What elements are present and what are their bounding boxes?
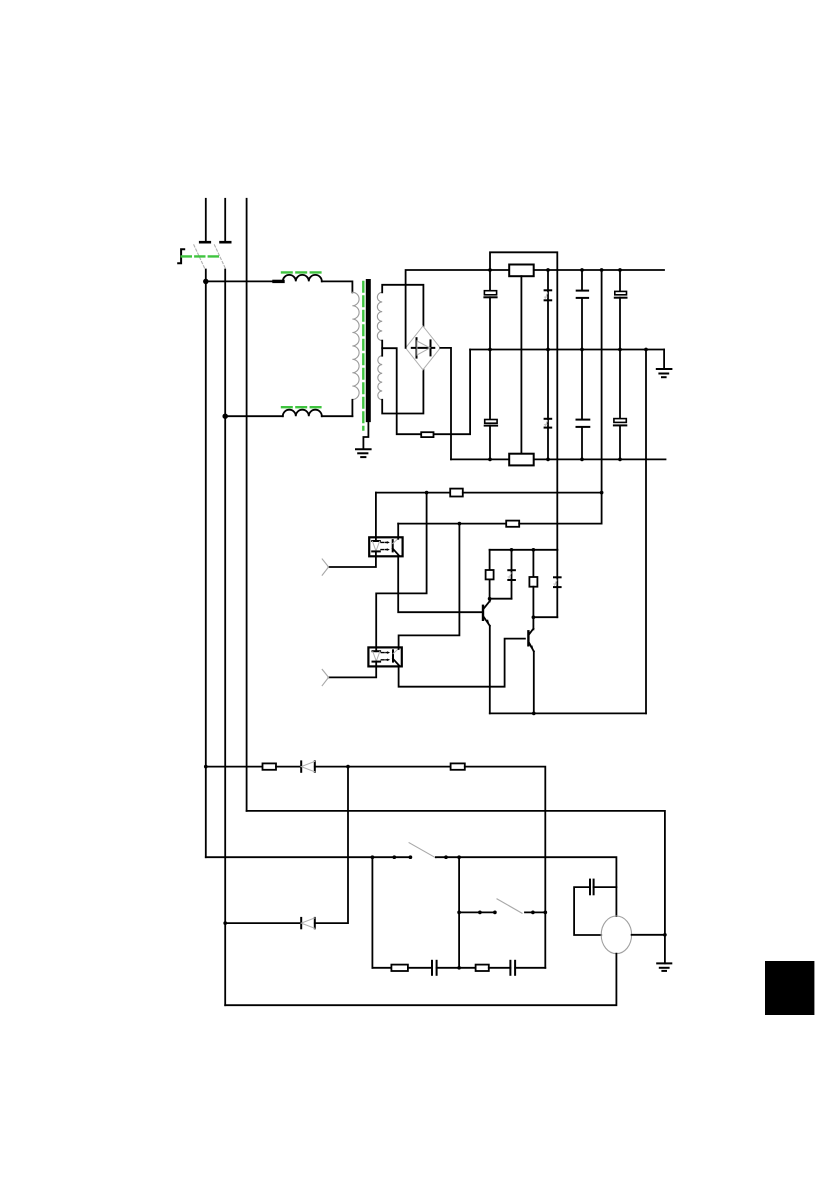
- transformer T1 primary winding: [352, 292, 359, 399]
- wire R8 to D1: [276, 766, 301, 768]
- node junction AC2 diode line: [223, 921, 227, 925]
- node junction motor right: [663, 933, 667, 937]
- wire C12 to corner: [515, 967, 545, 969]
- transistor Q1: [483, 599, 490, 714]
- wire opto1 right lead top: [397, 524, 399, 538]
- node junction line3 rail branch: [371, 855, 375, 859]
- wire middle bus: [470, 349, 664, 351]
- wire S3 right part: [525, 911, 545, 913]
- resistor R4 feed1: [450, 489, 463, 497]
- node feed1 junctions: [425, 491, 604, 495]
- wire D2 to riser: [315, 767, 348, 924]
- node bottom bus junctions: [488, 458, 622, 462]
- wire opto2 left lead from feed1: [376, 493, 426, 648]
- wire R9 to corner: [465, 767, 546, 968]
- transformer T1 shield green dashed line: [362, 282, 364, 430]
- motor M1: [601, 916, 631, 954]
- wire opto2 anode input: [329, 666, 377, 677]
- wire bottom return line: [225, 954, 616, 1006]
- node junction at AC1/phase wire: [204, 280, 208, 284]
- wire middle bus ground stem: [663, 350, 665, 369]
- wire top bus feed to opto line: [601, 270, 603, 493]
- bridge rectifier BR1 diode symbol: [412, 338, 435, 357]
- diode D2: [301, 918, 315, 928]
- capacitor C7 electrolytic row1: [615, 270, 627, 350]
- ground symbol transformer core: [356, 449, 371, 457]
- optocoupler U2 box: [368, 647, 401, 666]
- capacitor C10 Q2 collector: [533, 550, 560, 617]
- switch S1 pole2 lever: [214, 245, 226, 270]
- capacitor C11 snubber1: [432, 961, 437, 975]
- wire thick terminal segment: [274, 280, 283, 283]
- wire feed2 to vertical: [519, 493, 601, 524]
- wire AC line 3: [246, 199, 248, 811]
- wire primary bottom lead: [351, 400, 353, 416]
- wire R2 to R3 string: [520, 276, 522, 454]
- node junction AC2/choke: [223, 414, 227, 418]
- node junction AC1 line1: [204, 765, 208, 769]
- switch S3 line: [459, 911, 495, 913]
- resistor R5 feed2: [506, 521, 519, 527]
- page marker black box: [765, 961, 814, 1015]
- resistor R8 line1: [263, 763, 277, 769]
- wire diode line: [225, 922, 301, 924]
- wire opto1 left lead top: [375, 493, 377, 538]
- wire secondary top lead: [382, 285, 423, 326]
- capacitor C6 row2: [577, 350, 590, 460]
- resistor R11 snubber2: [476, 965, 489, 971]
- wire collector sub rail: [490, 549, 558, 551]
- wire opto1 emitter to Q1 base: [398, 556, 483, 612]
- wire R10 to C11: [408, 967, 432, 969]
- connector chevron input 1: [322, 559, 328, 575]
- switch S1 linkage bracket: [178, 249, 184, 263]
- wire AC line 1 lower: [205, 270, 207, 858]
- node Q1 collector: [488, 597, 492, 601]
- wire resistor to middle bus: [435, 350, 471, 435]
- wire D1 to junction: [315, 766, 451, 768]
- switch S3 lever: [497, 899, 522, 913]
- capacitor C1 electrolytic row1: [484, 270, 496, 350]
- wire opto feed line 1: [376, 492, 450, 494]
- wire top bus from bridge: [406, 270, 664, 348]
- wire choke top to transformer: [322, 281, 353, 292]
- wire cap to motor left: [574, 887, 601, 935]
- wire AC line 2 lower: [224, 270, 226, 1006]
- capacitor C12 snubber2: [510, 961, 515, 975]
- transformer T1 secondary winding upper: [377, 292, 382, 340]
- capacitor C9 Q1 collector: [490, 550, 515, 599]
- wire motor right: [632, 934, 665, 936]
- resistor R6 Q1 collector: [486, 550, 494, 599]
- inductor L1 green dashes bottom: [282, 406, 322, 408]
- optocoupler U1 internals: [372, 537, 399, 556]
- capacitor C5 row1: [577, 270, 588, 350]
- switch S2 lever: [409, 843, 436, 858]
- inductor L1 green dashes top: [282, 271, 322, 273]
- wire top jumper over regulator: [490, 252, 557, 550]
- connector chevron input 2: [322, 669, 328, 685]
- transistor Q2: [528, 617, 533, 713]
- inductor L1 choke bottom winding: [283, 410, 322, 416]
- wire bottom bus: [451, 458, 666, 460]
- wire phase to choke: [206, 280, 283, 282]
- wire lower line2: [247, 811, 665, 935]
- resistor R7 Q2 collector: [529, 550, 537, 617]
- wire branch line3 to rail: [371, 857, 373, 968]
- diode D1: [301, 761, 315, 771]
- node junction rail: [457, 966, 461, 970]
- wire AC line 1 upper: [205, 199, 207, 242]
- wire bottom choke to transformer: [322, 415, 353, 417]
- transformer T1 secondary winding lower: [378, 356, 382, 400]
- wire line3 right part: [436, 857, 617, 916]
- node sub rail junctions: [510, 548, 536, 552]
- switch S1 pole2 contact bar: [221, 241, 231, 244]
- inductor L1 choke top winding: [283, 275, 322, 282]
- wire opto feed line 2: [398, 523, 506, 525]
- wire middle bus down to emitter rail: [645, 350, 647, 714]
- optocoupler U1 box: [369, 537, 402, 556]
- switch S1 pole1 contact bar: [200, 241, 210, 244]
- wire secondary center tap lead: [381, 341, 383, 356]
- wire tap to resistor: [382, 348, 422, 434]
- node Q2 collector: [532, 615, 536, 619]
- wire feed1 to vertical: [463, 492, 602, 494]
- node emitter rail junction: [532, 712, 536, 716]
- optocoupler U2 internals: [373, 647, 400, 666]
- ground symbol motor: [657, 963, 671, 971]
- resistor R10 snubber1: [391, 965, 408, 971]
- wire R11 to C12: [489, 967, 511, 969]
- capacitor C13 motor: [590, 880, 594, 895]
- switch S3 contacts: [457, 911, 535, 915]
- wire motor ground stem: [664, 935, 666, 964]
- wire opto2 right lead from feed2: [399, 524, 460, 648]
- wire C11 to junction: [437, 967, 476, 969]
- wire snubber rail: [372, 967, 391, 969]
- wire neutral to choke: [225, 415, 283, 417]
- wire motor cap branch: [594, 886, 617, 888]
- resistor R2 top bus series: [509, 265, 534, 277]
- ground symbol middle bus: [657, 369, 672, 377]
- node feed2 junction: [458, 522, 462, 526]
- capacitor C2 electrolytic row2: [485, 350, 497, 460]
- wire secondary bottom lead: [382, 370, 423, 414]
- capacitor C8 electrolytic row2: [614, 350, 626, 460]
- node middle bus junctions: [488, 348, 648, 352]
- wire opto1 anode input: [329, 556, 376, 567]
- resistor R9 line1: [451, 763, 465, 769]
- transformer T1 core bar: [366, 282, 371, 420]
- capacitor C4 row2: [544, 350, 551, 460]
- wire lower line1: [206, 766, 263, 768]
- wire branch line3 to sw3: [458, 857, 460, 968]
- bridge rectifier BR1 diamond: [406, 326, 441, 370]
- resistor R3 bottom bus series: [509, 454, 534, 466]
- wire bridge right output: [440, 348, 451, 460]
- switch S2 contacts: [392, 855, 461, 859]
- wire emitter rail: [490, 712, 646, 714]
- resistor R1 tap series: [421, 432, 433, 437]
- switch S1 pole1 lever: [194, 245, 205, 270]
- capacitor C3 row1: [544, 270, 551, 350]
- node junction line1 branch: [346, 765, 350, 769]
- node junction S3 right: [543, 911, 547, 915]
- wire opto2 emitter to Q2 base: [399, 639, 525, 687]
- switch S1 linkage dashed green line: [182, 255, 220, 257]
- wire lower line3: [206, 856, 411, 858]
- node top bus junctions: [488, 268, 622, 272]
- wire AC line 2 upper: [224, 199, 226, 242]
- wire core to ground: [363, 420, 368, 449]
